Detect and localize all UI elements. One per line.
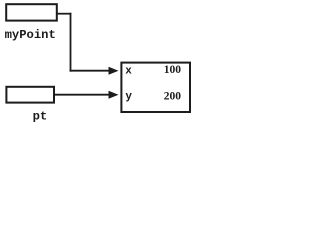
wire from myPoint box, horizontal segment — [57, 13, 72, 15]
svg-text:y: y — [125, 91, 132, 103]
svg-text:200: 200 — [164, 91, 182, 103]
svg-text:pt: pt — [33, 110, 48, 124]
svg-text:x: x — [125, 65, 132, 77]
variable box pt — [6, 87, 54, 103]
arrowhead into y field — [109, 91, 119, 99]
wire horizontal segment into x field — [70, 70, 110, 72]
svg-text:100: 100 — [164, 64, 182, 76]
svg-text:myPoint: myPoint — [5, 28, 56, 42]
variable box myPoint — [6, 4, 57, 20]
object box — [121, 63, 190, 112]
wire vertical segment — [70, 13, 72, 72]
wire from pt box into y field — [54, 94, 110, 96]
arrowhead into x field — [109, 67, 119, 75]
